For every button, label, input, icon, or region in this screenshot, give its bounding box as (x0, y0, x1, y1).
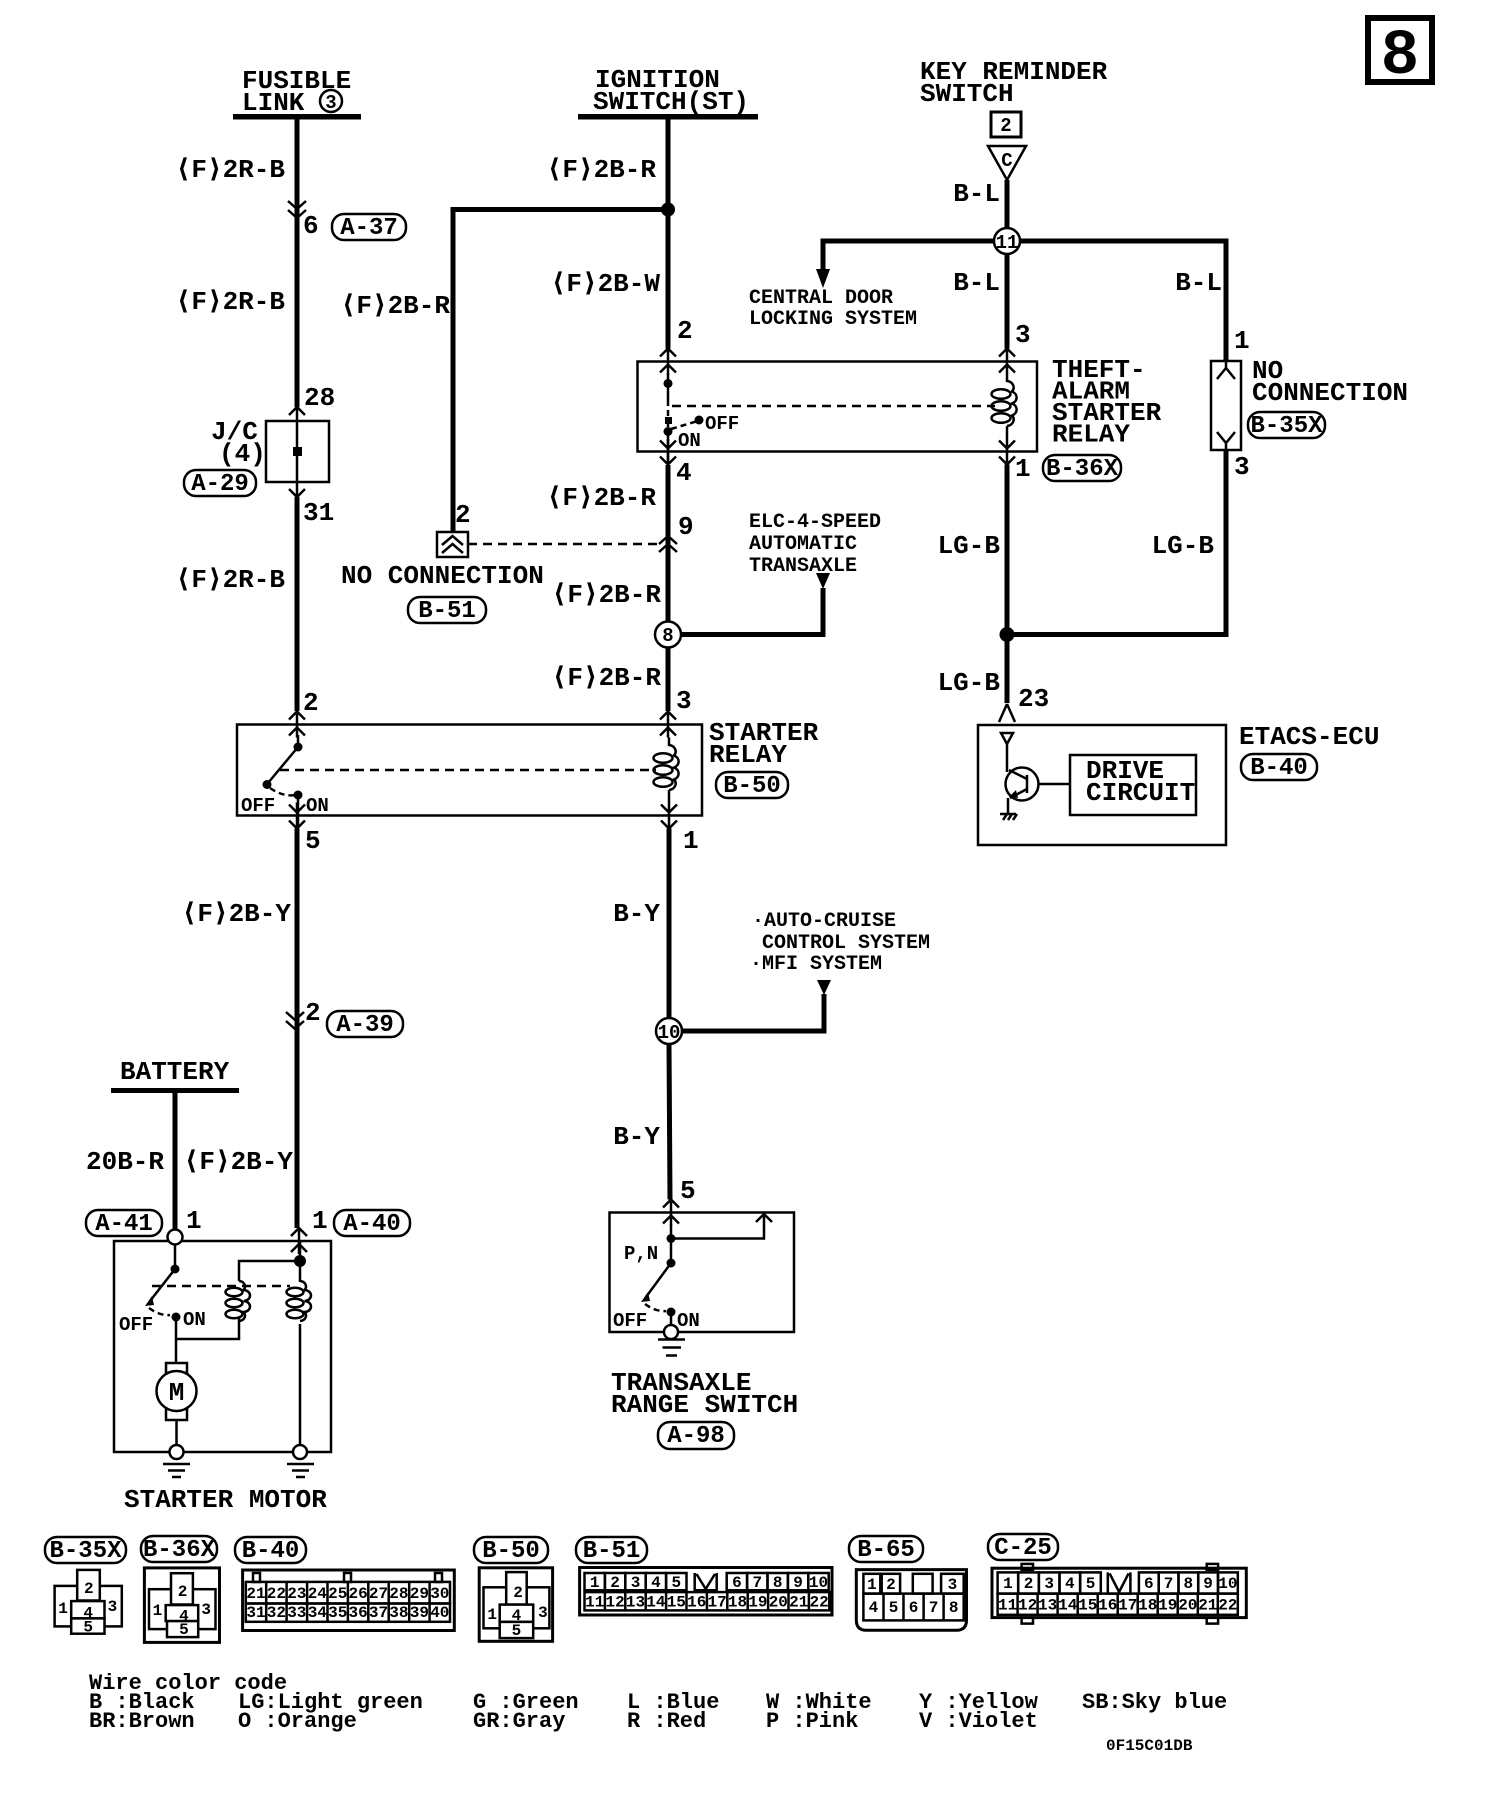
svg-text:25: 25 (328, 1585, 347, 1603)
svg-text:B-L: B-L (953, 179, 1000, 209)
svg-text:4: 4 (651, 1574, 661, 1592)
svg-text:⟨F⟩2B-W: ⟨F⟩2B-W (551, 269, 661, 299)
svg-text:OFF: OFF (119, 1314, 153, 1336)
svg-text:A-37: A-37 (340, 215, 398, 242)
svg-text:B-65: B-65 (857, 1537, 915, 1564)
svg-text:20: 20 (769, 1594, 788, 1612)
transaxle switch (613, 1239, 700, 1333)
svg-text:·AUTO-CRUISE: ·AUTO-CRUISE (752, 910, 896, 933)
svg-text:1: 1 (867, 1576, 877, 1594)
annotation CENTRAL DOOR LOCKING SYSTEM (749, 287, 917, 331)
pin entry theft relay top left (660, 349, 676, 375)
svg-text:B-L: B-L (953, 268, 1000, 298)
pin entry transaxle range switch (663, 1200, 679, 1226)
svg-text:ON: ON (183, 1309, 206, 1331)
wire battery 20B-R (173, 1093, 178, 1231)
svg-text:M: M (169, 1378, 185, 1408)
connector view B-65 (849, 1536, 967, 1630)
battery terminal circle (168, 1230, 183, 1245)
svg-text:9: 9 (678, 512, 694, 542)
svg-text:B-50: B-50 (723, 773, 781, 800)
ground starter motor right (287, 1464, 314, 1477)
svg-text:1: 1 (1003, 1575, 1013, 1593)
svg-text:22: 22 (809, 1594, 828, 1612)
svg-text:ON: ON (678, 430, 701, 452)
svg-text:O :Orange: O :Orange (238, 1709, 357, 1734)
svg-text:10: 10 (809, 1574, 828, 1592)
ETACS-ECU box (978, 725, 1226, 845)
svg-text:P :Pink: P :Pink (766, 1709, 858, 1734)
svg-text:23: 23 (287, 1585, 306, 1603)
svg-text:C: C (1001, 150, 1012, 172)
svg-text:4: 4 (1065, 1575, 1075, 1593)
svg-text:A-41: A-41 (95, 1211, 153, 1238)
wire elc tee (681, 588, 823, 635)
svg-text:28: 28 (304, 383, 335, 413)
arrow to ELC system (816, 573, 830, 589)
svg-text:BATTERY: BATTERY (120, 1057, 230, 1087)
wire fusible link column (295, 119, 300, 407)
svg-text:BR:Brown: BR:Brown (89, 1709, 195, 1734)
svg-text:B-40: B-40 (1250, 755, 1308, 782)
svg-text:3: 3 (201, 1601, 211, 1619)
svg-text:OFF: OFF (241, 795, 275, 817)
svg-text:1: 1 (58, 1600, 68, 1618)
svg-text:40: 40 (430, 1604, 449, 1622)
svg-text:3: 3 (1044, 1575, 1054, 1593)
svg-text:16: 16 (1098, 1597, 1117, 1615)
svg-text:B-35X: B-35X (49, 1538, 122, 1565)
svg-text:R :Red: R :Red (627, 1709, 706, 1734)
pin exit starter relay bottom left (289, 803, 305, 829)
svg-text:1: 1 (683, 826, 699, 856)
svg-text:1: 1 (153, 1602, 163, 1620)
svg-text:4: 4 (676, 458, 692, 488)
starter motor switch (119, 1244, 206, 1339)
svg-text:10: 10 (658, 1022, 681, 1044)
transistor (1006, 768, 1071, 815)
svg-text:C-25: C-25 (994, 1535, 1052, 1562)
svg-text:⟨F⟩2B-R: ⟨F⟩2B-R (552, 663, 662, 693)
pin entry starter motor right (291, 1228, 307, 1254)
svg-text:·MFI SYSTEM: ·MFI SYSTEM (750, 953, 882, 976)
svg-text:22: 22 (1218, 1597, 1237, 1615)
svg-text:14: 14 (1058, 1597, 1078, 1615)
page number box 8 (1368, 18, 1432, 93)
svg-text:20B-R: 20B-R (86, 1147, 164, 1177)
key reminder connector box 2 (991, 112, 1021, 137)
svg-text:5: 5 (179, 1621, 189, 1639)
svg-text:9: 9 (793, 1574, 803, 1592)
svg-text:2: 2 (513, 1584, 523, 1602)
svg-text:15: 15 (667, 1594, 686, 1612)
svg-text:B-50: B-50 (482, 1538, 540, 1565)
svg-text:10: 10 (1218, 1575, 1237, 1593)
inline connector A-37 (288, 201, 406, 242)
svg-text:RELAY: RELAY (709, 740, 787, 770)
arrow to auto-cruise/mfi (817, 980, 831, 995)
pin exit theft relay bottom left (660, 439, 676, 465)
svg-text:3: 3 (108, 1598, 118, 1616)
ground etacs (1000, 814, 1017, 820)
svg-text:9: 9 (1203, 1575, 1213, 1593)
svg-text:1: 1 (487, 1606, 497, 1624)
ref tag A-41 (86, 1210, 162, 1238)
svg-text:3: 3 (1234, 452, 1250, 482)
svg-text:OFF: OFF (613, 1310, 647, 1332)
starter relay box (237, 725, 702, 816)
svg-text:LOCKING SYSTEM: LOCKING SYSTEM (749, 308, 917, 331)
svg-text:(4): (4) (219, 439, 266, 469)
svg-text:8: 8 (1183, 1575, 1193, 1593)
svg-text:4: 4 (869, 1599, 879, 1617)
svg-text:NO CONNECTION: NO CONNECTION (341, 561, 544, 591)
svg-text:1: 1 (1234, 326, 1250, 356)
svg-text:⟨F⟩2R-B: ⟨F⟩2R-B (176, 287, 286, 317)
ref tag B-50 (716, 772, 788, 800)
transaxle internal branch to P,N (667, 1214, 773, 1243)
svg-text:⟨F⟩2B-R: ⟨F⟩2B-R (341, 291, 451, 321)
ground terminal right (293, 1445, 307, 1459)
svg-text:CIRCUIT: CIRCUIT (1086, 778, 1195, 808)
svg-text:17: 17 (707, 1594, 726, 1612)
starter motor linkage dashed (152, 1285, 290, 1288)
svg-text:1: 1 (186, 1206, 202, 1236)
theft relay switch (664, 373, 740, 465)
svg-text:18: 18 (728, 1594, 747, 1612)
svg-text:⟨F⟩2B-R: ⟨F⟩2B-R (547, 483, 657, 513)
drive circuit box (1070, 755, 1196, 815)
node branch junction (661, 203, 675, 217)
svg-text:⟨F⟩2B-Y: ⟨F⟩2B-Y (182, 899, 292, 929)
svg-text:LG-B: LG-B (938, 531, 1001, 561)
terminal fork at ETACS (999, 704, 1015, 722)
starter motor box (114, 1241, 331, 1452)
annotation auto-cruise / mfi (750, 910, 930, 976)
svg-text:23: 23 (1018, 684, 1049, 714)
svg-text:A-39: A-39 (336, 1012, 394, 1039)
no connection component B-35X (1211, 356, 1408, 450)
svg-text:ON: ON (677, 1310, 700, 1332)
svg-text:GR:Gray: GR:Gray (473, 1709, 565, 1734)
svg-text:3: 3 (948, 1576, 958, 1594)
wire (F)2B-Y column (295, 829, 300, 1229)
svg-text:B-Y: B-Y (613, 1122, 660, 1152)
svg-text:1: 1 (590, 1574, 600, 1592)
transaxle name (611, 1368, 798, 1420)
svg-text:SWITCH: SWITCH (920, 79, 1014, 109)
ground starter motor left (163, 1464, 190, 1477)
wire B-Y to transaxle (669, 1044, 670, 1200)
wire ignition column mid (666, 465, 671, 621)
ref tag B-40 (1241, 754, 1317, 782)
svg-text:28: 28 (389, 1585, 408, 1603)
svg-text:19: 19 (1158, 1597, 1177, 1615)
svg-text:B-L: B-L (1175, 268, 1222, 298)
svg-text:CONTROL SYSTEM: CONTROL SYSTEM (762, 932, 930, 955)
svg-text:30: 30 (430, 1585, 449, 1603)
svg-text:ON: ON (306, 795, 329, 817)
pin entry starter relay top right (660, 712, 676, 738)
svg-text:1: 1 (1015, 454, 1031, 484)
wire ignition to starter relay (666, 648, 671, 712)
connector view C-25 (988, 1534, 1246, 1624)
svg-text:⟨F⟩2R-B: ⟨F⟩2R-B (176, 155, 286, 185)
key reminder switch header (920, 57, 1108, 109)
wire branch to B-51 (453, 210, 668, 533)
svg-text:2: 2 (1024, 1575, 1034, 1593)
svg-text:5: 5 (680, 1176, 696, 1206)
svg-text:8: 8 (949, 1599, 959, 1617)
motor M (157, 1339, 197, 1452)
key reminder terminal triangle C (988, 146, 1026, 180)
svg-text:5: 5 (889, 1599, 899, 1617)
ETACS internal wire (1006, 744, 1009, 772)
svg-text:2: 2 (84, 1580, 94, 1598)
svg-text:11: 11 (585, 1594, 604, 1612)
svg-text:21: 21 (789, 1594, 808, 1612)
svg-text:LINK: LINK (242, 88, 305, 118)
svg-text:B-40: B-40 (242, 1538, 300, 1565)
pin exit starter relay bottom right (661, 803, 677, 829)
svg-text:31: 31 (303, 498, 334, 528)
svg-text:7: 7 (752, 1574, 762, 1592)
transaxle range switch box (610, 1213, 795, 1333)
pin exit theft relay bottom right (999, 439, 1015, 465)
svg-text:35: 35 (328, 1604, 347, 1622)
wire fusible link lower (295, 497, 300, 711)
svg-text:33: 33 (287, 1604, 306, 1622)
wire auto-cruise tee (682, 994, 824, 1031)
svg-text:12: 12 (1018, 1597, 1037, 1615)
dashed link B-51 to pin 9 (468, 543, 659, 546)
svg-text:18: 18 (1138, 1597, 1157, 1615)
svg-text:2: 2 (178, 1583, 188, 1601)
connector view B-35X (45, 1537, 126, 1637)
svg-text:6: 6 (909, 1599, 919, 1617)
annotation ELC-4-SPEED AUTOMATIC TRANSAXLE (749, 511, 881, 578)
svg-text:RELAY: RELAY (1052, 420, 1130, 450)
svg-text:CENTRAL DOOR: CENTRAL DOOR (749, 287, 893, 310)
svg-text:11: 11 (996, 232, 1019, 254)
wire color code legend (89, 1671, 1227, 1734)
svg-text:CONNECTION: CONNECTION (1252, 378, 1408, 408)
svg-text:5: 5 (83, 1619, 93, 1637)
ref tag A-29 (184, 470, 256, 498)
junction connector J/C (4) (211, 407, 329, 497)
svg-text:7: 7 (1164, 1575, 1174, 1593)
node junction LG-B (1000, 627, 1015, 642)
svg-text:8: 8 (662, 625, 673, 647)
svg-text:14: 14 (646, 1594, 666, 1612)
svg-text:20: 20 (1178, 1597, 1197, 1615)
no connection connector B-51 (341, 500, 544, 625)
svg-text:LG-B: LG-B (938, 668, 1001, 698)
svg-text:13: 13 (626, 1594, 645, 1612)
connector view B-51 (576, 1537, 832, 1615)
svg-text:37: 37 (369, 1604, 388, 1622)
svg-text:5: 5 (512, 1622, 522, 1640)
svg-text:B-51: B-51 (418, 598, 476, 625)
svg-text:6: 6 (732, 1574, 742, 1592)
svg-text:34: 34 (308, 1604, 328, 1622)
svg-text:13: 13 (1038, 1597, 1057, 1615)
svg-text:B-Y: B-Y (613, 899, 660, 929)
theft relay name text (1052, 355, 1162, 450)
connector view B-36X (141, 1536, 220, 1642)
svg-text:3: 3 (325, 92, 336, 114)
svg-text:B-35X: B-35X (1250, 413, 1323, 440)
starter relay coil (654, 738, 679, 803)
inline connector pin 9 (659, 512, 694, 552)
starter relay switch (241, 735, 329, 828)
svg-text:16: 16 (687, 1594, 706, 1612)
svg-text:32: 32 (267, 1604, 286, 1622)
svg-text:3: 3 (538, 1604, 548, 1622)
svg-text:SB:Sky blue: SB:Sky blue (1082, 1690, 1227, 1715)
wire B-L right branch (1020, 241, 1226, 361)
svg-text:36: 36 (348, 1604, 367, 1622)
svg-text:3: 3 (1015, 320, 1031, 350)
svg-text:38: 38 (389, 1604, 408, 1622)
node circle 8 (655, 622, 681, 648)
ground terminal left (170, 1445, 184, 1459)
svg-text:3: 3 (631, 1574, 641, 1592)
wire key to theft relay (1005, 254, 1010, 349)
ground transaxle (658, 1340, 685, 1356)
svg-text:12: 12 (605, 1594, 624, 1612)
svg-text:5: 5 (1086, 1575, 1096, 1593)
svg-text:V :Violet: V :Violet (919, 1709, 1038, 1734)
starter relay armature dashed line (280, 769, 656, 772)
svg-text:SWITCH(ST): SWITCH(ST) (593, 87, 749, 117)
svg-text:17: 17 (1118, 1597, 1137, 1615)
svg-text:11: 11 (998, 1597, 1017, 1615)
ignition switch header (578, 65, 758, 120)
battery header (111, 1057, 239, 1093)
svg-text:B-51: B-51 (583, 1538, 641, 1565)
wire key reminder B-L (1005, 180, 1010, 228)
svg-text:39: 39 (410, 1604, 429, 1622)
svg-text:⟨F⟩2R-B: ⟨F⟩2R-B (176, 565, 286, 595)
svg-text:2: 2 (1000, 115, 1011, 137)
wire LG-B right down (1009, 450, 1226, 635)
wire central door tee (823, 241, 994, 270)
connector view B-50 (474, 1537, 553, 1641)
svg-text:LG-B: LG-B (1152, 531, 1215, 561)
svg-text:2: 2 (886, 1576, 896, 1594)
svg-text:⟨F⟩2B-R: ⟨F⟩2B-R (547, 155, 657, 185)
svg-text:⟨F⟩2B-R: ⟨F⟩2B-R (552, 580, 662, 610)
svg-text:8: 8 (773, 1574, 783, 1592)
svg-text:⟨F⟩2B-Y: ⟨F⟩2B-Y (184, 1147, 294, 1177)
transaxle ground terminal (664, 1325, 678, 1339)
ETACS internal terminal triangle (1001, 733, 1013, 744)
svg-text:1: 1 (312, 1206, 328, 1236)
svg-text:B-36X: B-36X (143, 1537, 216, 1564)
svg-text:8: 8 (1381, 21, 1419, 93)
node circle 11 (994, 228, 1020, 254)
svg-text:5: 5 (671, 1574, 681, 1592)
svg-text:A-29: A-29 (191, 471, 249, 498)
svg-text:7: 7 (929, 1599, 939, 1617)
theft relay armature dashed line (672, 405, 995, 408)
starter relay name (709, 718, 819, 770)
pin entry starter relay top left (289, 712, 305, 738)
hold-in coil (287, 1241, 312, 1452)
svg-text:6: 6 (1144, 1575, 1154, 1593)
theft relay coil (992, 375, 1017, 439)
svg-text:26: 26 (348, 1585, 367, 1603)
wire theft relay to etacs (1005, 465, 1010, 704)
wire ignition switch column (666, 119, 671, 349)
svg-text:P,N: P,N (624, 1243, 658, 1265)
svg-text:OFF: OFF (705, 413, 739, 435)
svg-text:2: 2 (305, 998, 321, 1028)
svg-text:24: 24 (308, 1585, 328, 1603)
fusible link header (233, 66, 361, 120)
svg-text:2: 2 (610, 1574, 620, 1592)
svg-text:0F15C01DB: 0F15C01DB (1106, 1737, 1193, 1755)
node coil junction (294, 1255, 306, 1267)
connector view B-40 (235, 1537, 454, 1631)
svg-text:ETACS-ECU: ETACS-ECU (1239, 722, 1379, 752)
svg-text:ELC-4-SPEED: ELC-4-SPEED (749, 511, 881, 534)
node circle 10 (656, 1018, 682, 1044)
svg-text:A-98: A-98 (667, 1423, 725, 1450)
svg-text:A-40: A-40 (343, 1211, 401, 1238)
svg-text:B-36X: B-36X (1046, 456, 1119, 483)
svg-text:6: 6 (303, 211, 319, 241)
theft-alarm starter relay box (638, 362, 1038, 452)
svg-text:2: 2 (303, 688, 319, 718)
inline connector A-39 (286, 998, 403, 1039)
svg-text:2: 2 (455, 500, 471, 530)
svg-text:29: 29 (410, 1585, 429, 1603)
ref tag A-40 (334, 1210, 410, 1238)
svg-text:27: 27 (369, 1585, 388, 1603)
svg-text:2: 2 (677, 316, 693, 346)
svg-text:31: 31 (246, 1604, 265, 1622)
svg-text:TRANSAXLE: TRANSAXLE (749, 555, 857, 578)
pin entry theft relay top right (999, 349, 1015, 375)
ref tag B-36X (1043, 455, 1121, 483)
svg-text:15: 15 (1078, 1597, 1097, 1615)
wire B-Y column (667, 829, 672, 1019)
pull-in coil (176, 1261, 300, 1339)
arrow to central door locking (816, 269, 830, 288)
svg-text:3: 3 (676, 686, 692, 716)
svg-text:21: 21 (1198, 1597, 1217, 1615)
svg-text:STARTER MOTOR: STARTER MOTOR (124, 1485, 327, 1515)
svg-text:22: 22 (267, 1585, 286, 1603)
svg-text:5: 5 (305, 826, 321, 856)
svg-text:19: 19 (748, 1594, 767, 1612)
svg-text:RANGE SWITCH: RANGE SWITCH (611, 1390, 798, 1420)
svg-text:AUTOMATIC: AUTOMATIC (749, 533, 857, 556)
ref tag A-98 (658, 1422, 734, 1450)
svg-text:21: 21 (246, 1585, 265, 1603)
